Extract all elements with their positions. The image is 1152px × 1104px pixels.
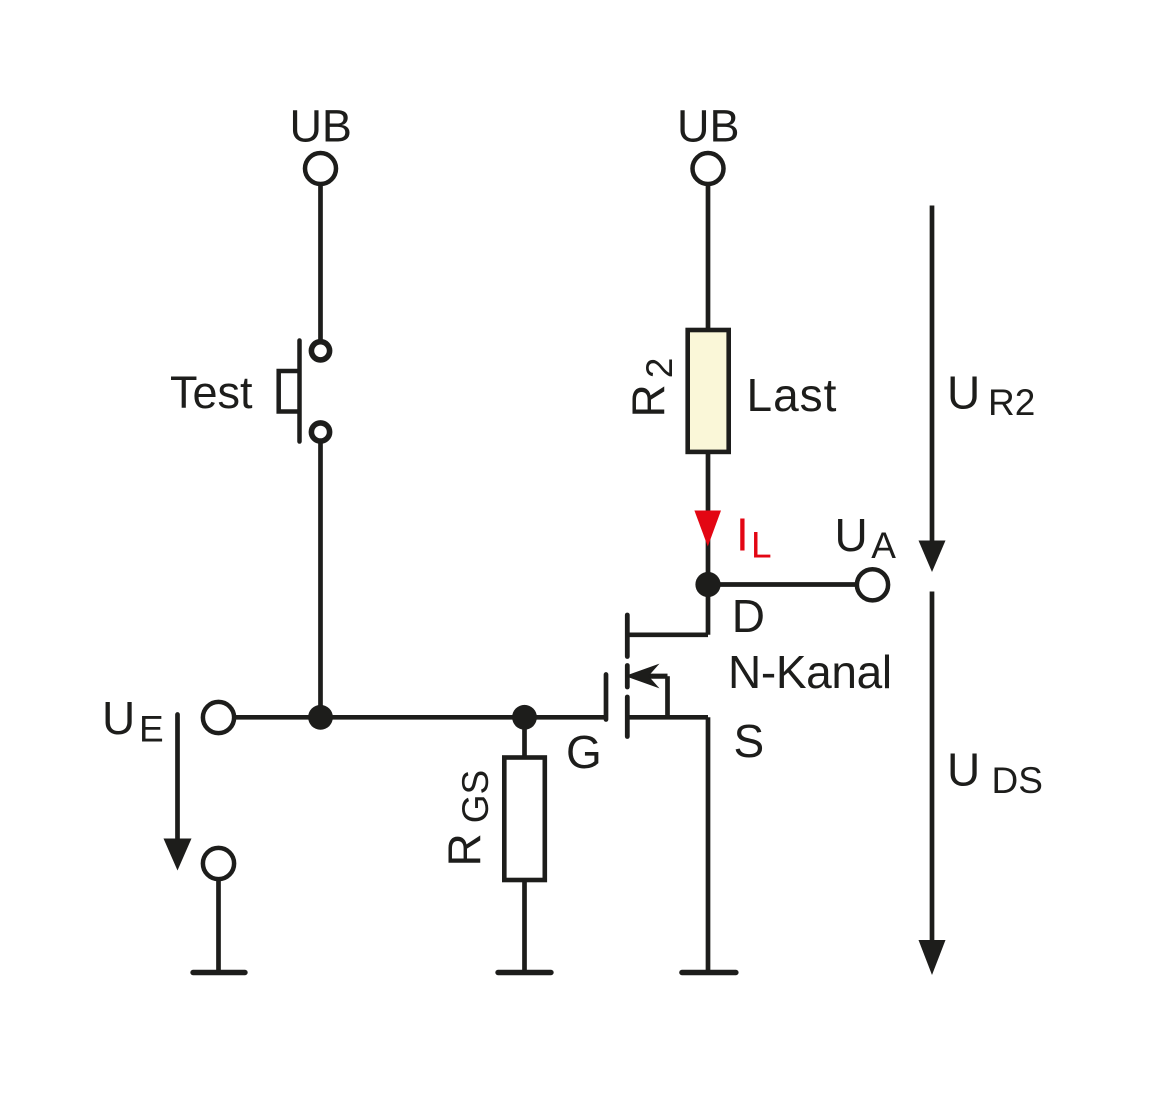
svg-text:I: I [736, 508, 749, 560]
svg-text:Test: Test [170, 367, 253, 418]
svg-text:R2: R2 [988, 382, 1035, 423]
svg-text:UB: UB [677, 100, 740, 151]
svg-text:A: A [871, 525, 896, 566]
svg-text:U: U [947, 366, 980, 418]
svg-text:G: G [566, 726, 602, 778]
svg-text:E: E [139, 709, 164, 750]
svg-text:U: U [102, 692, 135, 744]
svg-text:L: L [751, 525, 772, 566]
svg-text:N-Kanal: N-Kanal [728, 646, 892, 698]
svg-text:S: S [734, 715, 765, 767]
svg-text:U: U [947, 744, 980, 796]
svg-text:Last: Last [747, 369, 838, 421]
svg-text:U: U [835, 509, 868, 561]
svg-text:D: D [732, 590, 765, 642]
svg-text:DS: DS [992, 760, 1043, 801]
svg-text:UB: UB [289, 100, 352, 151]
